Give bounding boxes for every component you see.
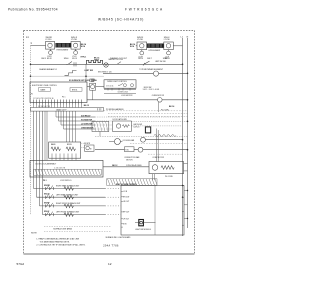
svg-text:LO OVEN TMP: LO OVEN TMP — [81, 123, 93, 125]
wire burner row 1 — [34, 188, 106, 190]
wire tod row — [95, 149, 188, 151]
wire sensor box down — [99, 132, 101, 137]
svg-text:L1: L1 — [31, 42, 33, 44]
lock assembly box — [30, 160, 103, 177]
svg-text:VOLTAGES AND HEATING UNITS.: VOLTAGES AND HEATING UNITS. — [40, 240, 70, 243]
svg-text:SURFACE UNIT AREA: SURFACE UNIT AREA — [53, 228, 72, 231]
svg-text:CABLE 16 P7: CABLE 16 P7 — [56, 109, 66, 112]
wire drop from oven motor — [158, 102, 160, 112]
long wires to burner rows — [34, 111, 43, 215]
svg-text:BAKE: BAKE — [41, 88, 47, 91]
latch relay coil — [123, 125, 130, 128]
svg-text:P2 CONN: P2 CONN — [161, 109, 169, 111]
junction dot row G / N — [187, 99, 189, 101]
element E8 row3 — [64, 204, 74, 208]
vertical pair to conv box — [157, 129, 159, 162]
svg-text:LIGHT SW MODULE: LIGHT SW MODULE — [135, 229, 152, 231]
broil element E4 — [66, 147, 76, 151]
svg-text:SW-8: SW-8 — [163, 58, 168, 60]
svg-text:FAN MOTOR 120V: FAN MOTOR 120V — [109, 58, 124, 61]
dashed band bottom extension — [104, 110, 189, 112]
harness cable band left — [31, 108, 104, 112]
wire B4 to L1 rail — [173, 45, 182, 47]
wire stub into EOC — [85, 64, 87, 82]
vent heater element square wave — [87, 60, 103, 64]
junction dot latch/L1 — [182, 139, 184, 141]
switch S7 on row A — [143, 61, 150, 65]
svg-text:LT-230: LT-230 — [164, 39, 170, 41]
svg-text:P1: P1 — [31, 94, 33, 96]
board wire to L1 row1 — [183, 185, 185, 187]
svg-text:LF OUT: LF OUT — [123, 218, 129, 220]
indicator lamp PL7 — [141, 50, 143, 52]
wire top feed left — [31, 45, 46, 47]
motor M1 top browner — [153, 71, 158, 76]
junction dot tod row / N — [187, 149, 189, 151]
svg-text:HTR-1: HTR-1 — [81, 57, 87, 59]
oven lamp PL9 — [91, 85, 95, 89]
wire mid row 1 — [56, 116, 95, 118]
svg-text:SURFACE IND. LIGHTS BOARD: SURFACE IND. LIGHTS BOARD — [106, 236, 132, 239]
svg-text:W-14: W-14 — [130, 45, 134, 48]
junction dots board rails — [182, 185, 183, 186]
svg-text:HI OVEN TMP: HI OVEN TMP — [81, 119, 93, 121]
svg-text:OVEN LIGHT CONTROL: OVEN LIGHT CONTROL — [107, 81, 127, 83]
svg-text:CONV MOTOR: CONV MOTOR — [152, 157, 164, 159]
bake broil element box — [49, 142, 81, 158]
svg-text:P4 CONN: P4 CONN — [165, 176, 173, 178]
lamp PL2 — [73, 43, 77, 47]
dashed bus lines right — [108, 114, 188, 117]
conv box bottom drops — [153, 174, 155, 181]
lamp housing box B3 — [137, 42, 147, 50]
svg-text:SW-RF: SW-RF — [44, 202, 50, 204]
wire row C dotted — [31, 75, 105, 77]
svg-text:DOOR LATCH SW: DOOR LATCH SW — [113, 118, 128, 121]
svg-text:FWTR865GCA: FWTR865GCA — [125, 8, 164, 12]
svg-text:COOLING FAN: COOLING FAN — [123, 139, 135, 142]
element E6 row1 — [64, 187, 74, 191]
svg-text:LR OUT: LR OUT — [123, 201, 129, 203]
wire row A — [31, 63, 183, 65]
door motor M8 — [86, 146, 90, 150]
svg-text:W-14: W-14 — [81, 45, 85, 48]
svg-text:ESEC 30 USER CONTROL: ESEC 30 USER CONTROL — [116, 184, 137, 186]
surface indicator board box — [121, 186, 184, 236]
wire bundle from EOC pins — [34, 105, 82, 108]
wire row D under light box — [104, 88, 136, 90]
element E7 row2 — [64, 195, 74, 199]
indicator lamp PL4 — [75, 49, 77, 51]
svg-text:W/B945 (SC-H04A730): W/B945 (SC-H04A730) — [98, 18, 144, 22]
svg-text:2. CONTINUOUS TRY IF ON EACH: 2. CONTINUOUS TRY IF ON EACH SIDE OF ALL… — [36, 243, 85, 246]
wire mid row 4 — [64, 128, 96, 130]
svg-text:SW-LF: SW-LF — [44, 211, 49, 213]
switch S3 row2 — [45, 194, 53, 199]
junction dot rail rowC — [30, 75, 32, 77]
svg-text:1 2 3 4 5 6 7 8 9 10 12 14 16: 1 2 3 4 5 6 7 8 9 10 12 14 16 — [33, 98, 53, 100]
svg-text:3 01 1 - 3 01 3 - 4 001: 3 01 1 - 3 01 3 - 4 001 — [143, 89, 160, 91]
fan motor M7 on row A — [104, 63, 108, 67]
svg-text:SW-7: SW-7 — [147, 58, 152, 60]
door motor box — [85, 145, 95, 151]
svg-text:LT-RF: LT-RF — [138, 56, 142, 58]
svg-text:TOP BROWNER ELEMENT: TOP BROWNER ELEMENT — [139, 69, 164, 71]
wire into conv box — [103, 166, 149, 168]
element E9 row4 — [64, 213, 74, 217]
schematic frame — [24, 30, 195, 32]
svg-text:LIMIT SW 240: LIMIT SW 240 — [155, 61, 166, 63]
svg-text:DR MTR: DR MTR — [84, 143, 91, 145]
lamp PL10 — [123, 84, 126, 87]
svg-text:LIMIT SW: LIMIT SW — [84, 70, 93, 72]
latch switch motor M5 — [138, 147, 143, 152]
svg-text:BK-12: BK-12 — [112, 165, 117, 167]
svg-text:RR OUT: RR OUT — [123, 196, 129, 198]
wire lamp to light control box — [96, 86, 104, 88]
dashed row mid2 — [148, 153, 182, 155]
latch relay motor — [116, 124, 120, 128]
svg-text:LOCK MOTOR: LOCK MOTOR — [121, 95, 133, 97]
svg-text:1. HEAVY LINES ARE ALL WIRING: 1. HEAVY LINES ARE ALL WIRING AT 10 AT L… — [36, 238, 79, 241]
junction dot row B / N — [187, 73, 189, 75]
board left edge stubs — [121, 191, 123, 227]
svg-text:LT-230: LT-230 — [46, 39, 52, 41]
svg-text:SW-LR: SW-LR — [44, 194, 50, 196]
switch in light box — [118, 83, 123, 85]
lamp PL5 — [140, 44, 144, 48]
svg-text:MOTOR: MOTOR — [126, 160, 133, 162]
relay K2 box — [70, 88, 82, 92]
svg-text:SW-RR: SW-RR — [44, 185, 50, 187]
wire burner row 4 — [43, 214, 106, 216]
svg-text:DOOR LOCK: DOOR LOCK — [118, 91, 129, 93]
lock harness hatched band — [34, 169, 102, 175]
svg-text:SHADED AREA AT L1: SHADED AREA AT L1 — [39, 68, 57, 71]
element terminal ticks — [52, 154, 76, 161]
switch S4 row3 — [45, 203, 53, 207]
timer dark box — [145, 127, 150, 133]
heater element E1 — [56, 43, 71, 47]
wire N rail — [187, 38, 189, 228]
wire row G to N — [162, 99, 187, 101]
dashed divider mid — [95, 135, 188, 137]
wire row B to N — [159, 72, 188, 74]
wire dark lamp to box — [135, 222, 156, 224]
svg-text:294A T786: 294A T786 — [103, 245, 119, 248]
wire left rail — [30, 46, 32, 216]
indicator lamp PL3 — [49, 49, 51, 51]
indicator lamp PL8 — [168, 50, 170, 52]
svg-text:BK-12: BK-12 — [84, 105, 89, 107]
junction dot rail rowA — [30, 64, 32, 66]
surface unit caption dashed box — [44, 226, 111, 231]
wire row B right — [103, 72, 153, 74]
wire row G — [87, 99, 158, 101]
svg-text:LEFT REAR SURFACE UNIT: LEFT REAR SURFACE UNIT — [56, 193, 78, 196]
svg-text:P5 1: P5 1 — [62, 97, 66, 99]
svg-text:CONV RELAY FEED: CONV RELAY FEED — [126, 164, 142, 167]
bake element E3 — [51, 147, 61, 151]
wire mid row 3 — [61, 124, 95, 126]
junction dot row A / L1 — [182, 64, 184, 66]
svg-text:LT-230: LT-230 — [71, 39, 77, 41]
svg-text:BR-18: BR-18 — [72, 58, 77, 60]
convection motor box — [149, 162, 184, 174]
wire feed into B3 — [136, 45, 137, 47]
svg-text:3-4 N.O.: 3-4 N.O. — [133, 126, 140, 128]
latch motor M4 — [141, 137, 146, 142]
thermostat staircase symbol — [65, 71, 77, 76]
svg-text:LAMP: LAMP — [90, 80, 96, 83]
switch S2 row1 — [45, 186, 53, 191]
oven light control box — [104, 80, 136, 88]
wire latch motor to L1 — [145, 139, 182, 141]
svg-text:OVEN MOTOR: OVEN MOTOR — [152, 95, 165, 97]
junction dot row 121 / N — [187, 121, 189, 123]
lamp housing box B2 — [71, 42, 80, 50]
element squiggle on divider — [154, 135, 176, 137]
switch S9 on row A — [117, 62, 121, 65]
svg-text:12: 12 — [108, 262, 112, 266]
svg-text:P8-1: P8-1 — [43, 180, 47, 182]
svg-text:NOTE:: NOTE: — [31, 232, 38, 234]
wire L1 rail — [182, 38, 184, 236]
relay K1 box — [39, 88, 51, 92]
svg-text:LOCK SW N.O.: LOCK SW N.O. — [60, 180, 72, 182]
wire EOC to lamp — [87, 86, 90, 88]
svg-text:BROIL: BROIL — [72, 89, 77, 91]
oven sensor connector box hatched — [92, 122, 109, 137]
wires to bake broil box — [67, 111, 76, 142]
lamp housing box B4 — [164, 42, 174, 50]
conv element E5 — [161, 166, 174, 170]
wire mid row 2 — [59, 120, 96, 122]
dashed link rows right — [95, 117, 188, 129]
lamp PL1 — [48, 43, 52, 47]
row D ticks — [108, 88, 130, 90]
svg-text:HTR ELEMENT: HTR ELEMENT — [57, 50, 69, 52]
heater element E2 — [147, 44, 164, 48]
svg-text:RF OUT: RF OUT — [123, 211, 129, 213]
wire row F — [104, 92, 136, 94]
svg-text:BR-18: BR-18 — [138, 58, 143, 60]
svg-text:Publication No. 5995442704: Publication No. 5995442704 — [8, 8, 58, 12]
svg-text:SW-6: SW-6 — [64, 58, 69, 60]
svg-text:SW-5: SW-5 — [41, 58, 46, 60]
wires to lock assembly — [45, 111, 47, 160]
svg-text:DOOR LOCK ASSEMBLY: DOOR LOCK ASSEMBLY — [36, 162, 58, 165]
indicator lamp in dark box — [140, 221, 143, 224]
wire lamp drop — [92, 90, 94, 100]
wire fan row — [109, 141, 122, 143]
svg-text:ELECTRONIC OVEN CONTROL: ELECTRONIC OVEN CONTROL — [32, 85, 57, 87]
svg-text:DLB RELAY: DLB RELAY — [81, 114, 91, 117]
svg-text:BK-14: BK-14 — [169, 105, 174, 108]
conv box stubs to rails — [184, 164, 188, 171]
lamp PL11 — [131, 84, 134, 87]
wire burner row 2 — [37, 196, 106, 198]
svg-text:LT-230: LT-230 — [137, 39, 143, 41]
motor M2 oven — [158, 98, 163, 103]
oven lamp housing — [90, 83, 96, 90]
switch S6 on row A — [66, 62, 76, 67]
dashed link bake to door motor — [81, 143, 85, 147]
dashed row mid1 — [130, 143, 188, 145]
board internal divider — [154, 186, 156, 236]
switch S5 row4 — [45, 212, 53, 217]
lamp PL6 — [166, 44, 170, 48]
svg-text:1 3 5 C 01: 1 3 5 C 01 — [106, 85, 113, 87]
EOC pin ticks — [34, 100, 82, 105]
junction dot row C — [85, 75, 87, 77]
svg-text:P1 WIRING HARNESS: P1 WIRING HARNESS — [106, 108, 124, 111]
wire burner row 3 — [40, 205, 106, 207]
cooling fan motor M3 — [114, 139, 120, 145]
svg-text:HTR ELEMENT: HTR ELEMENT — [149, 50, 161, 52]
svg-text:BR-18: BR-18 — [47, 58, 52, 60]
thermal switch box — [125, 147, 135, 152]
connector hatched band lower — [107, 179, 158, 185]
lamp housing box B1 — [46, 42, 55, 50]
svg-text:CONVECTION FAN: CONVECTION FAN — [124, 156, 140, 159]
svg-text:BROIL: BROIL — [67, 144, 72, 146]
electronic oven control box U1 — [30, 82, 87, 103]
svg-text:57G2: 57G2 — [17, 262, 25, 266]
conv motor M6 — [152, 165, 158, 171]
indicator lamp assembly dark — [139, 220, 144, 226]
elbow wires to mid rows — [56, 111, 64, 129]
latch relay box — [113, 121, 132, 131]
board wires to rails — [182, 191, 188, 226]
